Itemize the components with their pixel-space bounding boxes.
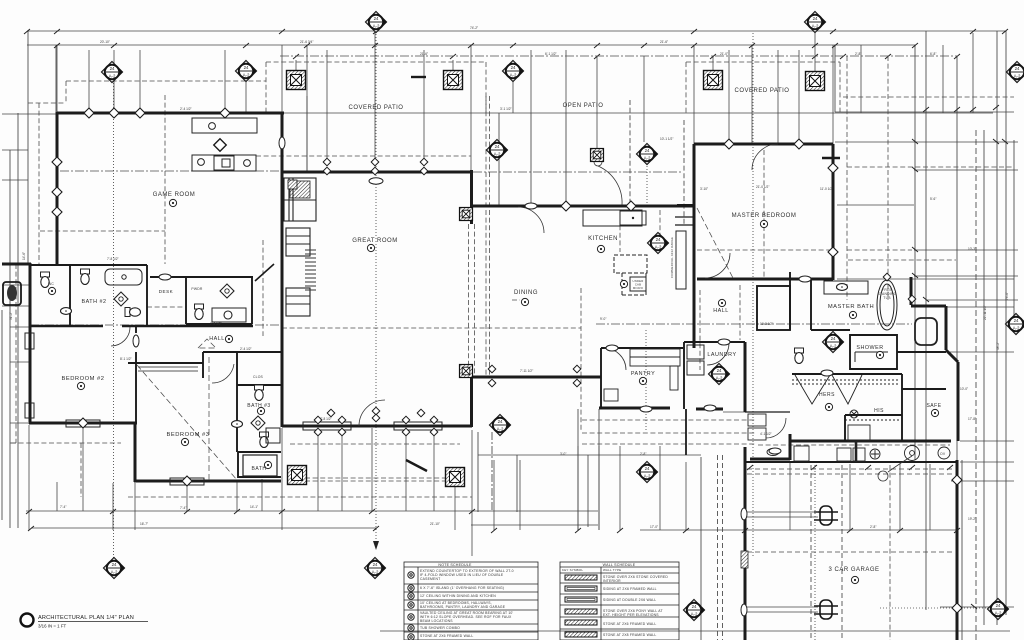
door master patio [705, 253, 730, 278]
left bay window fixture [3, 282, 21, 305]
svg-text:HALL: HALL [713, 308, 729, 314]
bottom dims [26, 510, 598, 512]
svg-text:20'-10": 20'-10" [100, 40, 110, 44]
svg-text:17'-8": 17'-8" [968, 417, 976, 421]
label circles [169, 199, 176, 206]
closet poles bedroom3 [138, 367, 198, 371]
open patio verticals [498, 113, 500, 205]
svg-text:OV: OV [940, 452, 946, 456]
wall bedroom2 bottom [29, 422, 137, 425]
garage post symbols [814, 506, 838, 619]
svg-text:2'-4 1/2": 2'-4 1/2" [240, 347, 252, 351]
svg-text:3 CAR GARAGE: 3 CAR GARAGE [828, 567, 879, 573]
svg-text:HERS: HERS [819, 392, 835, 398]
svg-text:22'-11 1/2": 22'-11 1/2" [983, 305, 987, 320]
svg-text:CASEMENT: CASEMENT [420, 577, 440, 581]
garage north storage row [767, 441, 950, 462]
wall safe west [902, 374, 946, 441]
svg-text:TUB SHOWER COMBO: TUB SHOWER COMBO [420, 626, 460, 630]
door kitchen pocket [518, 207, 544, 233]
wall master bedroom bottom [697, 278, 833, 281]
svg-text:BATH: BATH [252, 466, 267, 472]
svg-text:2'-8": 2'-8" [870, 525, 876, 529]
wall master left [693, 144, 696, 348]
wall great room right [470, 170, 473, 427]
left vertical dims [9, 150, 11, 528]
wall hall closet master [757, 286, 790, 330]
left extension horizontals [2, 150, 30, 443]
wall master bath west [790, 272, 811, 330]
leader 15 [888, 456, 912, 472]
dining dashed [580, 288, 582, 430]
wall bedroom3 left [134, 422, 137, 482]
svg-text:74'-0": 74'-0" [1005, 292, 1009, 300]
arrow bottom [373, 541, 379, 550]
wall bedroom2 right [135, 326, 137, 423]
hers/his closet [792, 375, 900, 441]
svg-text:NOTE SCHEDULE: NOTE SCHEDULE [438, 563, 472, 567]
door mud [766, 418, 786, 438]
right extension horizontals [835, 112, 1014, 462]
door laundry [707, 343, 729, 365]
svg-text:10'-3": 10'-3" [968, 247, 976, 251]
svg-text:7'-4": 7'-4" [60, 505, 66, 509]
bottom left dashed [11, 442, 121, 444]
bottom center patio line [478, 454, 701, 456]
svg-text:4'-1 1/2": 4'-1 1/2" [760, 432, 772, 436]
garage west windows [741, 508, 747, 520]
wall laundry [684, 342, 745, 409]
wall master bedroom top [694, 143, 833, 146]
laundry fixtures [687, 345, 704, 375]
svg-text:WALL TYPE: WALL TYPE [603, 568, 621, 572]
hall dashes master [699, 290, 701, 370]
wall mud west [685, 409, 687, 455]
svg-text:WC: WC [48, 282, 54, 286]
svg-text:2'-4 1/2": 2'-4 1/2" [180, 107, 192, 111]
wall toilet room master [811, 330, 946, 352]
svg-text:21'-6": 21'-6" [660, 40, 668, 44]
roof dash top left [28, 81, 266, 264]
svg-text:STONE AT 2X6 FRAMED WALL: STONE AT 2X6 FRAMED WALL [420, 634, 473, 638]
svg-text:7'-4": 7'-4" [180, 506, 186, 510]
svg-text:31'-2": 31'-2" [9, 312, 13, 320]
bath shower box [243, 455, 277, 476]
svg-text:DESK: DESK [159, 289, 174, 294]
dark diagonal strokes [255, 77, 840, 471]
svg-text:COMMERCIAL 4X12 RANGE: COMMERCIAL 4X12 RANGE [670, 237, 674, 278]
great room upper dashed [256, 155, 471, 157]
mid extension horizontals [472, 377, 790, 412]
wall game room top [57, 112, 284, 115]
bath3 fixtures [255, 385, 264, 401]
svg-text:10'-1 1/2": 10'-1 1/2" [660, 137, 673, 141]
top extension verticals [57, 33, 973, 171]
svg-text:DINING: DINING [514, 290, 538, 296]
wall spine great room left [281, 113, 284, 427]
svg-text:2'-8": 2'-8" [640, 452, 646, 456]
wall left bay [2, 263, 31, 266]
kitchen counters [583, 210, 686, 295]
wall kitchen top [473, 205, 693, 208]
svg-text:SIDING AT DOUBLE 2X6 WALL: SIDING AT DOUBLE 2X6 WALL [603, 598, 656, 602]
wall bath bottom box [238, 452, 281, 478]
wall bath2 desk divider [146, 265, 148, 325]
svg-text:CLOS: CLOS [253, 375, 264, 379]
svg-text:BEDROOM #3: BEDROOM #3 [166, 432, 209, 438]
wall south west [282, 425, 472, 428]
svg-text:7'-8 1/2": 7'-8 1/2" [320, 417, 332, 421]
wall pantry [601, 348, 683, 409]
svg-text:74'-2": 74'-2" [470, 26, 478, 30]
svg-text:SHOWER: SHOWER [856, 345, 883, 351]
svg-text:14'-1": 14'-1" [250, 505, 258, 509]
svg-text:BATH #2: BATH #2 [82, 299, 107, 305]
svg-text:LAUNDRY: LAUNDRY [707, 352, 736, 358]
svg-text:17'-0": 17'-0" [650, 525, 658, 529]
wall garage storage row [745, 461, 957, 463]
wall master bedroom right [832, 144, 835, 280]
fireplace [284, 178, 316, 316]
svg-text:SIDING AT 2X6 FRAMED WALL: SIDING AT 2X6 FRAMED WALL [603, 587, 657, 591]
wall wc divider [69, 265, 71, 325]
right of master bedroom [847, 166, 1014, 168]
pantry shelves [604, 349, 680, 401]
svg-text:GREAT ROOM: GREAT ROOM [352, 238, 397, 244]
svg-text:2'-8 1/2": 2'-8 1/2" [210, 322, 222, 326]
wall hall south [203, 351, 282, 353]
svg-text:12' CEILING WITHIN DINING AND: 12' CEILING WITHIN DINING AND KITCHEN [420, 594, 496, 598]
pwdr fixtures [195, 304, 204, 320]
svg-text:EXT. HEIGHT PER ELEVATIONS: EXT. HEIGHT PER ELEVATIONS [603, 613, 659, 617]
wall pwdr [150, 277, 253, 324]
wall laundry east [744, 342, 747, 412]
bedroom2 left wall windows [25, 333, 442, 485]
svg-text:8'-1 1/2": 8'-1 1/2" [120, 357, 132, 361]
game room bar counters [192, 118, 257, 171]
svg-text:9'-0": 9'-0" [600, 317, 606, 321]
svg-text:BEDROOM #2: BEDROOM #2 [61, 376, 104, 382]
svg-text:3'-0": 3'-0" [560, 452, 566, 456]
svg-text:KEY SYMBOL: KEY SYMBOL [562, 568, 583, 572]
svg-text:PWDR: PWDR [191, 287, 203, 291]
dining dashes [282, 327, 581, 329]
wall garage top [790, 440, 951, 443]
svg-text:MICRO: MICRO [633, 286, 644, 290]
wall master bath east [911, 277, 958, 441]
svg-text:INTERIOR: INTERIOR [603, 579, 621, 583]
svg-text:WALL SCHEDULE: WALL SCHEDULE [603, 563, 636, 567]
svg-text:ARCHITECTURAL PLAN 1/4" PLAN: ARCHITECTURAL PLAN 1/4" PLAN [38, 615, 134, 621]
wall y459 [750, 434, 790, 460]
door great south [359, 400, 385, 426]
fireplace column hatch [288, 180, 297, 189]
wall his closet [845, 415, 902, 441]
toilet master vestibule [795, 348, 804, 364]
svg-text:BATHROOMS, PANTRY, LAUNDRY AND: BATHROOMS, PANTRY, LAUNDRY AND GARAGE [420, 605, 506, 609]
svg-text:SAFE: SAFE [926, 403, 941, 409]
wall hall north [31, 325, 103, 328]
svg-text:STONE AT 2X6 FRAMED WALL: STONE AT 2X6 FRAMED WALL [603, 622, 656, 626]
master bedroom centerlines [763, 150, 765, 278]
svg-text:PANTRY: PANTRY [631, 371, 655, 377]
garage bay lines [701, 455, 988, 640]
svg-text:10'-0": 10'-0" [960, 387, 968, 391]
wall bedroom3 bottom [134, 480, 281, 483]
bottom center patio dashed [582, 419, 755, 421]
door kitchen rear [598, 166, 622, 205]
svg-text:STONE AT 2X8 FRAMED WALL: STONE AT 2X8 FRAMED WALL [603, 633, 656, 637]
door pantry [604, 348, 626, 370]
door bedroom2 [111, 327, 130, 346]
svg-text:TUB: TUB [883, 296, 891, 300]
svg-text:16'-7": 16'-7" [140, 522, 148, 526]
svg-text:21'-10": 21'-10" [430, 522, 440, 526]
svg-text:3'-10": 3'-10" [700, 187, 708, 191]
wall bath3 left [236, 352, 238, 452]
top right verticals [834, 45, 836, 112]
top edge line y113 [60, 112, 993, 114]
wall cased opening kitchen [675, 217, 694, 225]
svg-text:11'-3 1/2": 11'-3 1/2" [760, 322, 773, 326]
right horizontal ticks [835, 141, 1018, 143]
wall bath2 top [31, 264, 147, 266]
svg-text:6 X 7'-6" ISLAND (1' OVERHANG: 6 X 7'-6" ISLAND (1' OVERHANG FOR SEATIN… [420, 586, 504, 590]
centerline verticals [375, 31, 377, 546]
svg-text:21'-6 3/4": 21'-6 3/4" [300, 40, 313, 44]
wall great room top [281, 171, 472, 174]
svg-text:BEAM LOCATIONS: BEAM LOCATIONS [420, 619, 453, 623]
wall master jog [677, 204, 694, 206]
garage interior [889, 465, 891, 640]
svg-text:HALL: HALL [209, 336, 225, 342]
svg-text:7'-11 1/2": 7'-11 1/2" [520, 369, 533, 373]
bath2 fixtures [105, 269, 142, 285]
svg-text:HIS: HIS [874, 408, 884, 414]
svg-text:14'-6": 14'-6" [22, 252, 26, 260]
svg-text:5'-6": 5'-6" [930, 197, 936, 201]
svg-text:3'-1 1/2": 3'-1 1/2" [500, 107, 512, 111]
svg-text:GAME ROOM: GAME ROOM [153, 192, 196, 198]
svg-text:48'-2": 48'-2" [996, 342, 1000, 350]
master bath fixtures [824, 280, 937, 362]
wall shower box [850, 335, 897, 369]
wall bedroom3 top closet [128, 352, 203, 378]
great room south double dash [305, 477, 451, 479]
wall closet divider [237, 384, 282, 386]
door master entry [752, 144, 778, 170]
svg-text:KITCHEN: KITCHEN [588, 236, 618, 242]
svg-text:21'-0": 21'-0" [720, 52, 728, 56]
dim line top 1 [27, 30, 1005, 32]
patio dashed top [266, 61, 486, 63]
bottom extension verticals [29, 425, 930, 556]
wall game room left [56, 112, 59, 265]
kitchen ceiling dashes [619, 210, 621, 252]
wall mud bench [745, 411, 790, 413]
dim line top 2 [27, 44, 916, 46]
svg-text:MASTER BATH: MASTER BATH [828, 304, 874, 310]
vault diagonals [137, 208, 733, 480]
wall pantry laundry bottom [599, 408, 723, 409]
wall garage west [744, 447, 747, 640]
svg-text:COVERED PATIO: COVERED PATIO [349, 105, 404, 111]
wall closet top [792, 373, 902, 375]
svg-text:6'-8": 6'-8" [930, 52, 936, 56]
svg-text:21'-6": 21'-6" [420, 52, 428, 56]
svg-text:7'-8 1/2": 7'-8 1/2" [107, 257, 119, 261]
svg-text:COVERED PATIO: COVERED PATIO [735, 88, 790, 94]
dimension texts scattered [60, 26, 976, 529]
svg-text:11'-0 1/2": 11'-0 1/2" [820, 187, 833, 191]
svg-text:2'-8": 2'-8" [855, 52, 861, 56]
bar window diamond [214, 139, 227, 152]
svg-text:19'-2": 19'-2" [968, 517, 976, 521]
svg-text:6'-1 1/2": 6'-1 1/2" [545, 52, 557, 56]
wall garage east [956, 460, 959, 640]
svg-text:3/16 IN = 1 FT: 3/16 IN = 1 FT [38, 624, 67, 629]
svg-text:MASTER BEDROOM: MASTER BEDROOM [732, 213, 797, 219]
dash-dot ceiling lines [30, 56, 958, 325]
door bedroom3 [212, 364, 234, 383]
wall bedroom2 left [29, 263, 32, 424]
svg-text:21'-0 1/2": 21'-0 1/2" [756, 185, 769, 189]
wall south hall [471, 376, 601, 379]
mud bench fixtures [748, 414, 766, 440]
svg-text:OPEN PATIO: OPEN PATIO [563, 103, 604, 109]
door arcs [111, 144, 912, 481]
